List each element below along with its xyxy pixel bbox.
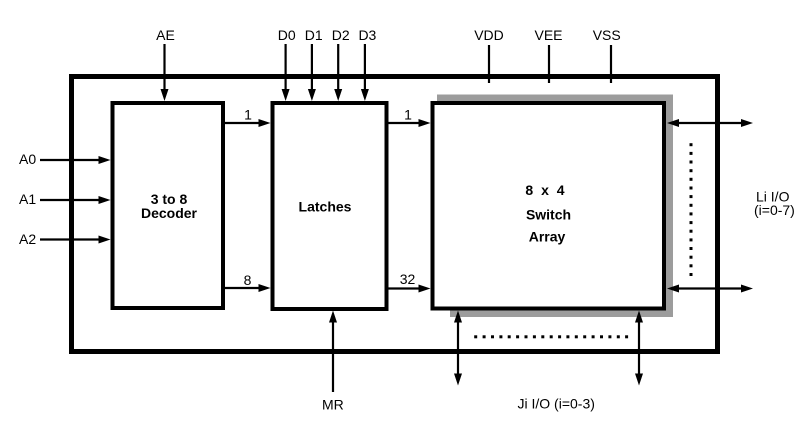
wire: A1 input arrow xyxy=(40,196,111,204)
dotted line: Li I/O ellipsis xyxy=(690,143,693,276)
wire: AE input arrow xyxy=(161,44,169,101)
switch array shadow xyxy=(436,95,673,319)
label D2 xyxy=(332,27,350,43)
outer chip boundary box xyxy=(72,77,718,352)
power pin VSS xyxy=(593,27,621,83)
bus: decoder to latches width 1 xyxy=(225,107,271,128)
power pin VEE xyxy=(534,27,562,83)
power pin VDD xyxy=(474,27,504,83)
label D3 xyxy=(358,27,376,43)
bus: latches to switch array width 1 xyxy=(387,107,431,128)
svg-text:A2: A2 xyxy=(19,231,36,247)
wire: Ji I/O left bidirectional arrow xyxy=(454,311,462,386)
label Li I/O (i=0-7) xyxy=(754,189,795,219)
dotted line: Ji I/O ellipsis xyxy=(474,335,628,338)
svg-text:Array: Array xyxy=(529,229,566,245)
wire: Li I/O bottom bidirectional arrow xyxy=(667,285,753,293)
label A2 xyxy=(19,231,36,247)
block: 3 to 8 Decoder U1 xyxy=(113,103,224,308)
wire: Li I/O top bidirectional arrow xyxy=(667,119,753,127)
svg-text:8: 8 xyxy=(244,272,252,288)
svg-text:D2: D2 xyxy=(332,27,350,43)
svg-text:VEE: VEE xyxy=(534,27,562,43)
wire: D3 input arrow xyxy=(361,44,369,101)
wire: D0 input arrow xyxy=(282,44,290,101)
label D1 xyxy=(305,27,323,43)
svg-text:32: 32 xyxy=(400,271,416,287)
wire: D1 input arrow xyxy=(308,44,316,101)
bus: latches to switch array width 32 xyxy=(387,271,431,293)
wire: A0 input arrow xyxy=(40,156,111,164)
svg-text:8 x 4: 8 x 4 xyxy=(525,182,566,198)
label MR xyxy=(322,397,344,413)
wire: Ji I/O right bidirectional arrow xyxy=(635,311,643,386)
label AE xyxy=(156,27,175,43)
svg-text:Switch: Switch xyxy=(526,207,571,223)
svg-text:D3: D3 xyxy=(358,27,376,43)
block: 8 x 4 Switch Array U3 xyxy=(433,103,665,309)
svg-text:Latches: Latches xyxy=(299,199,352,215)
svg-text:VSS: VSS xyxy=(593,27,621,43)
label A0 xyxy=(19,151,36,167)
svg-text:D1: D1 xyxy=(305,27,323,43)
wire: A2 input arrow xyxy=(40,236,111,244)
wire: D2 input arrow xyxy=(334,44,342,101)
svg-text:(i=0-7): (i=0-7) xyxy=(754,202,795,218)
block: Latches U2 xyxy=(273,103,387,309)
wire: MR input arrow xyxy=(329,311,337,393)
label A1 xyxy=(19,191,36,207)
svg-text:Ji I/O (i=0-3): Ji I/O (i=0-3) xyxy=(518,396,595,412)
svg-text:Decoder: Decoder xyxy=(141,205,198,221)
svg-text:1: 1 xyxy=(244,107,252,123)
svg-text:D0: D0 xyxy=(278,27,296,43)
label Ji I/O (i=0-3) xyxy=(518,396,595,412)
svg-text:AE: AE xyxy=(156,27,175,43)
svg-text:1: 1 xyxy=(404,107,412,123)
label D0 xyxy=(278,27,296,43)
bus: decoder to latches width 8 xyxy=(225,272,271,292)
svg-text:A1: A1 xyxy=(19,191,36,207)
svg-text:VDD: VDD xyxy=(474,27,504,43)
svg-text:A0: A0 xyxy=(19,151,36,167)
svg-text:MR: MR xyxy=(322,397,344,413)
